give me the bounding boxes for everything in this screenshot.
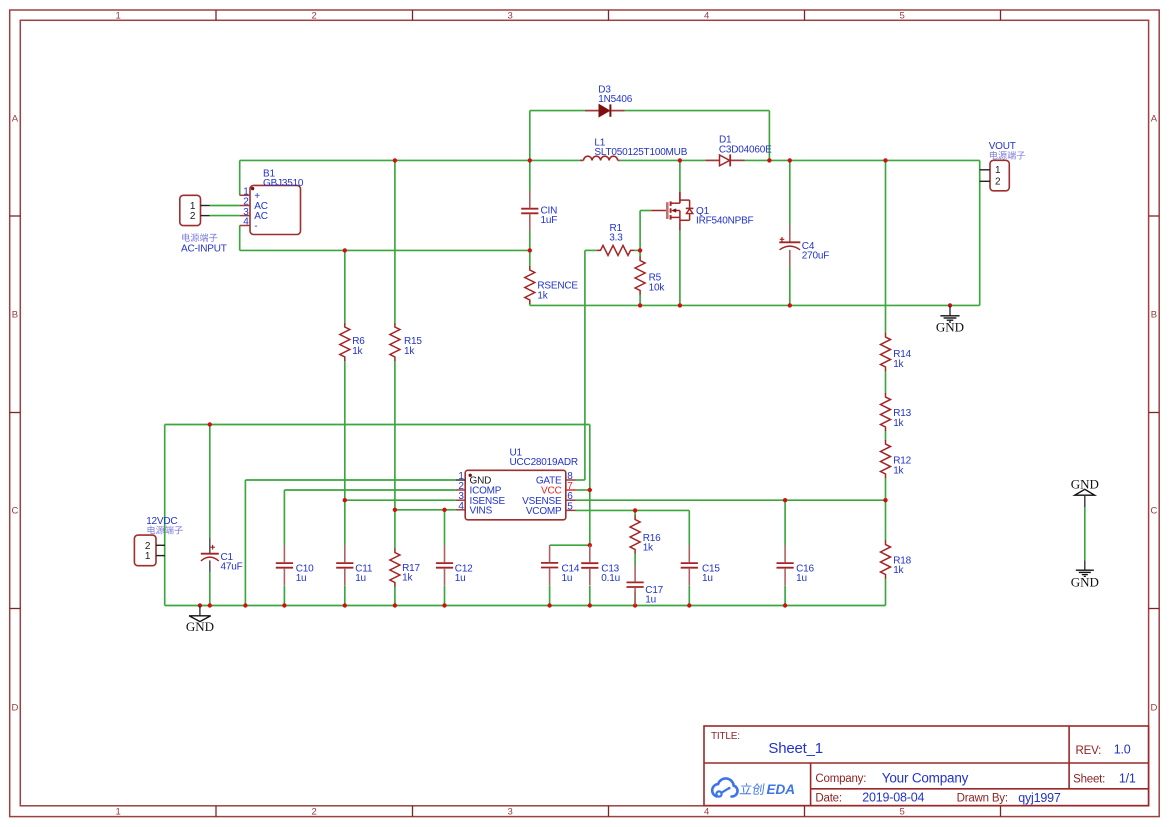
junction: [282, 603, 286, 607]
svg-text:1u: 1u: [455, 573, 466, 584]
resistor R18: [881, 541, 912, 579]
wire: [1084, 507, 1086, 560]
svg-text:0.1u: 0.1u: [601, 573, 620, 584]
resistor R6: [340, 323, 365, 361]
wire: [239, 160, 241, 195]
junction: [343, 248, 347, 252]
svg-text:1/1: 1/1: [1119, 772, 1136, 786]
junction: [678, 158, 682, 162]
ground: [936, 305, 964, 334]
wire: [576, 509, 690, 511]
svg-text:1k: 1k: [352, 346, 363, 357]
wire: [885, 500, 887, 541]
svg-text:1k: 1k: [643, 543, 654, 554]
wire: [344, 250, 346, 323]
wire: [589, 586, 591, 606]
resistor R15: [390, 323, 422, 361]
wire: [394, 160, 396, 323]
svg-text:1: 1: [145, 551, 151, 562]
capacitor C13: [581, 546, 620, 586]
svg-text:2: 2: [190, 211, 196, 222]
capacitor C1: [201, 538, 243, 573]
wire: [283, 490, 285, 546]
wire: [529, 160, 531, 191]
wire: [549, 585, 551, 605]
wire: [639, 211, 641, 251]
junction: [208, 422, 212, 426]
wire: [789, 160, 791, 225]
capacitor C10: [276, 545, 314, 585]
connector VOUT: [980, 160, 1010, 191]
capacitor C16: [777, 545, 815, 585]
svg-text:1k: 1k: [893, 465, 904, 476]
svg-text:GND: GND: [186, 619, 214, 634]
junction: [393, 603, 397, 607]
wire: [584, 250, 586, 480]
wire: [529, 111, 531, 161]
logo LCEDA: [712, 778, 795, 796]
svg-text:GND: GND: [1071, 574, 1099, 589]
junction: [783, 603, 787, 607]
wire: [688, 586, 690, 606]
svg-text:1u: 1u: [296, 573, 307, 584]
wire: [620, 159, 706, 161]
wire: [239, 226, 241, 251]
resistor R14: [881, 333, 912, 371]
wire: [885, 478, 887, 501]
wire: [885, 578, 887, 606]
junction: [208, 603, 212, 607]
svg-text:1u: 1u: [562, 573, 573, 584]
junction: [588, 543, 592, 547]
svg-text:-: -: [254, 221, 257, 232]
svg-text:B: B: [1151, 310, 1157, 321]
svg-text:D: D: [1150, 703, 1157, 714]
svg-text:VCOMP: VCOMP: [526, 506, 562, 517]
wire: [394, 361, 396, 510]
op-amp U1: [456, 448, 578, 520]
svg-text:Company:: Company:: [815, 773, 866, 785]
wire: [589, 425, 591, 491]
svg-text:Drawn By:: Drawn By:: [957, 793, 1008, 805]
svg-text:4: 4: [704, 10, 709, 21]
svg-text:VOUT: VOUT: [989, 141, 1016, 152]
resistor R17: [390, 549, 421, 587]
svg-text:1k: 1k: [404, 346, 415, 357]
svg-text:D: D: [11, 703, 18, 714]
junction: [343, 603, 347, 607]
wire: [634, 553, 636, 565]
wire: [395, 509, 456, 511]
svg-text:12VDC: 12VDC: [146, 516, 177, 527]
svg-text:UCC28019ADR: UCC28019ADR: [510, 457, 578, 468]
svg-text:Your Company: Your Company: [882, 771, 969, 786]
wire: [576, 489, 590, 491]
capacitor CIN: [521, 191, 557, 231]
svg-text:1u: 1u: [702, 573, 713, 584]
svg-text:EDA: EDA: [767, 782, 796, 797]
svg-text:1k: 1k: [402, 573, 413, 584]
wire: [885, 160, 887, 333]
wire: [625, 110, 770, 112]
ground: [1071, 560, 1099, 589]
junction: [588, 603, 592, 607]
wire: [530, 304, 980, 306]
svg-text:1: 1: [115, 10, 120, 21]
resistor R1: [597, 223, 635, 255]
svg-text:GBJ3510: GBJ3510: [263, 178, 304, 189]
wire: [529, 231, 531, 266]
capacitor C4: [779, 225, 829, 268]
wire: [885, 431, 887, 441]
junction: [883, 498, 887, 502]
svg-text:3: 3: [507, 807, 512, 818]
svg-text:2: 2: [995, 177, 1001, 188]
svg-text:2: 2: [311, 10, 316, 21]
junction: [547, 603, 551, 607]
connector 12VDC: [134, 535, 165, 566]
svg-text:1k: 1k: [893, 359, 904, 370]
junction: [633, 603, 637, 607]
junction: [638, 303, 642, 307]
svg-text:3: 3: [507, 10, 512, 21]
svg-text:1N5406: 1N5406: [598, 94, 632, 105]
capacitor C14: [541, 545, 580, 585]
junction: [343, 498, 347, 502]
svg-text:1k: 1k: [537, 290, 548, 301]
svg-text:SLT050125T100MUB: SLT050125T100MUB: [594, 147, 687, 158]
junction: [638, 248, 642, 252]
wire: [245, 479, 455, 481]
capacitor C17: [627, 565, 664, 606]
resistor R16: [630, 516, 661, 554]
svg-text:A: A: [12, 114, 19, 125]
wire: [283, 586, 285, 606]
svg-text:4: 4: [243, 217, 249, 228]
svg-text:B: B: [12, 310, 18, 321]
svg-text:IRF540NPBF: IRF540NPBF: [696, 216, 754, 227]
junction: [883, 158, 887, 162]
wire: [244, 480, 246, 606]
resistor R12: [881, 440, 912, 478]
svg-text:1u: 1u: [355, 573, 366, 584]
junction: [393, 158, 397, 162]
wire: [209, 425, 211, 539]
wire: [576, 479, 585, 481]
wire: [284, 489, 455, 491]
svg-text:5: 5: [567, 501, 573, 512]
wire: [679, 160, 681, 191]
wire: [639, 250, 641, 257]
wire: [640, 210, 651, 212]
capacitor C11: [336, 545, 373, 585]
wire: [585, 249, 597, 251]
svg-text:5: 5: [899, 10, 904, 21]
capacitor C12: [436, 545, 473, 585]
svg-text:270uF: 270uF: [802, 251, 829, 262]
svg-text:Sheet_1: Sheet_1: [768, 740, 822, 757]
wire: [745, 159, 980, 161]
wire: [634, 592, 636, 606]
svg-text:1k: 1k: [893, 418, 904, 429]
wire: [576, 499, 886, 501]
svg-text:47uF: 47uF: [221, 562, 243, 573]
wire: [679, 231, 681, 306]
svg-text:1: 1: [115, 807, 120, 818]
wire: [209, 571, 211, 606]
wire: [639, 294, 641, 305]
wire: [394, 586, 396, 606]
svg-text:REV:: REV:: [1076, 745, 1102, 757]
svg-text:C: C: [1150, 506, 1157, 517]
junction: [687, 603, 691, 607]
resistor R5: [635, 257, 665, 295]
wire: [240, 159, 580, 161]
svg-text:Sheet:: Sheet:: [1073, 774, 1105, 786]
svg-text:2: 2: [311, 807, 316, 818]
junction: [783, 498, 787, 502]
wire: [210, 215, 240, 217]
svg-text:TITLE:: TITLE:: [711, 731, 740, 742]
wire: [345, 499, 456, 501]
wire: [165, 605, 886, 607]
wire: [634, 510, 636, 516]
svg-text:C3D04060E: C3D04060E: [719, 144, 772, 155]
wire: [688, 510, 690, 545]
junction: [393, 508, 397, 512]
svg-text:1: 1: [995, 165, 1001, 176]
wire: [344, 361, 346, 500]
transistor Q1: [651, 192, 753, 231]
junction: [788, 303, 792, 307]
wire: [394, 510, 396, 549]
capacitor C15: [681, 545, 721, 585]
wire: [444, 586, 446, 606]
svg-text:2019-08-04: 2019-08-04: [862, 791, 924, 805]
resistor R13: [881, 393, 912, 431]
junction: [442, 508, 446, 512]
svg-text:1k: 1k: [893, 565, 904, 576]
connector AC-INPUT: [180, 195, 210, 225]
wire: [979, 160, 981, 305]
wire: [210, 205, 240, 207]
junction: [948, 303, 952, 307]
wire: [784, 500, 786, 545]
junction: [788, 158, 792, 162]
wire: [344, 586, 346, 606]
wire: [165, 424, 590, 426]
wire: [768, 111, 770, 161]
label VOUT: [989, 141, 1025, 160]
wire: [529, 304, 531, 306]
wire: [444, 510, 446, 546]
svg-text:Date:: Date:: [815, 793, 842, 805]
svg-text:qyj1997: qyj1997: [1018, 791, 1061, 805]
wire: [789, 267, 791, 305]
wire: [240, 249, 530, 251]
junction: [198, 603, 202, 607]
svg-text:GND: GND: [936, 320, 964, 335]
junction: [767, 158, 771, 162]
svg-text:1uF: 1uF: [541, 215, 558, 226]
wire: [530, 110, 585, 112]
bridge rectifier B1: [240, 168, 304, 234]
label 12VDC: [146, 516, 183, 535]
svg-text:C: C: [11, 506, 18, 517]
junction: [528, 158, 532, 162]
inductor L1: [580, 137, 688, 160]
svg-text:4: 4: [458, 501, 464, 512]
svg-text:AC-INPUT: AC-INPUT: [181, 244, 227, 255]
svg-text:1.0: 1.0: [1114, 742, 1131, 756]
svg-text:5: 5: [899, 807, 904, 818]
svg-text:3.3: 3.3: [609, 233, 623, 244]
wire: [550, 544, 590, 546]
wire: [784, 586, 786, 606]
label AC-INPUT: [181, 233, 227, 254]
svg-text:4: 4: [704, 807, 709, 818]
wire: [589, 490, 591, 546]
resistor RSENCE: [525, 266, 579, 304]
junction: [678, 303, 682, 307]
wire: [164, 425, 166, 606]
junction: [528, 248, 532, 252]
diode D3: [585, 84, 633, 116]
junction: [633, 508, 637, 512]
ground: [1071, 476, 1099, 507]
junction: [588, 488, 592, 492]
title block: [704, 726, 1149, 806]
wire: [344, 500, 346, 545]
wire: [634, 249, 640, 251]
svg-text:1u: 1u: [796, 573, 807, 584]
junction: [442, 603, 446, 607]
ground: [186, 606, 214, 634]
svg-text:A: A: [1151, 114, 1158, 125]
svg-text:10k: 10k: [649, 282, 666, 293]
wire: [885, 371, 887, 394]
svg-text:VINS: VINS: [470, 505, 493, 516]
svg-text:GND: GND: [1071, 476, 1099, 491]
junction: [243, 603, 247, 607]
svg-text:1u: 1u: [645, 595, 656, 606]
diode D1: [705, 135, 772, 167]
